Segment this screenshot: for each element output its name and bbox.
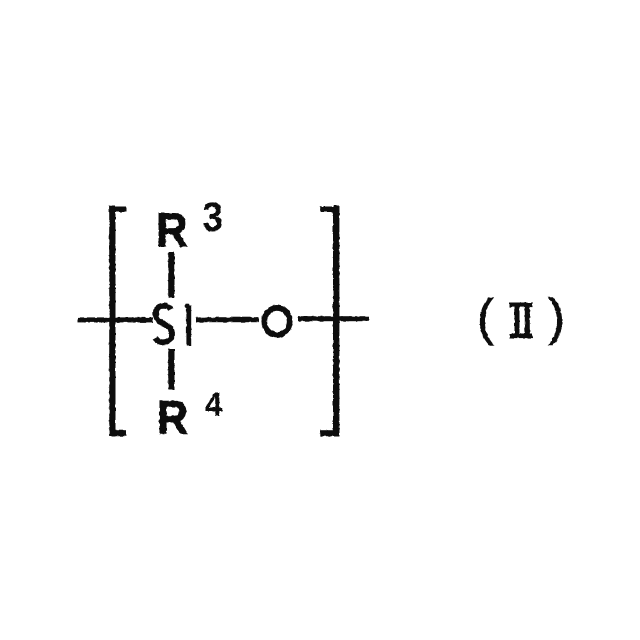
svg-text:R: R bbox=[156, 203, 188, 257]
svg-text:(: ( bbox=[477, 289, 494, 346]
bond Si to R4 bbox=[168, 349, 174, 390]
bond Si to O bbox=[196, 317, 259, 322]
svg-text:4: 4 bbox=[205, 385, 222, 424]
bond O to right terminal bbox=[298, 316, 369, 321]
left terminal bond bbox=[78, 317, 153, 322]
atom label O bbox=[264, 308, 289, 335]
svg-text:3: 3 bbox=[202, 194, 223, 241]
substituent label R4 (bottom) bbox=[157, 385, 222, 445]
formula number (II) bbox=[477, 289, 565, 346]
svg-text:R: R bbox=[157, 391, 188, 444]
bond R3 to Si bbox=[168, 252, 174, 298]
right repeat bracket bbox=[320, 206, 339, 437]
substituent label R3 (top) bbox=[156, 194, 223, 257]
left repeat bracket bbox=[109, 206, 126, 437]
atom label Si bbox=[155, 304, 189, 346]
svg-text:): ) bbox=[548, 289, 565, 346]
